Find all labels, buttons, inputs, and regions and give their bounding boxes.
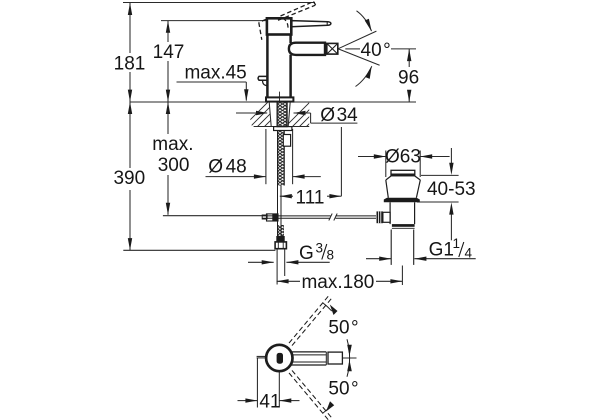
svg-text:Ø48: Ø48 <box>208 156 246 177</box>
svg-text:4: 4 <box>465 246 473 261</box>
svg-text:96: 96 <box>398 67 419 88</box>
svg-text:41: 41 <box>259 391 280 412</box>
svg-text:max.: max. <box>152 134 193 155</box>
svg-text:40°: 40° <box>361 40 391 61</box>
svg-text:50°: 50° <box>328 318 358 339</box>
svg-text:40-53: 40-53 <box>427 179 476 200</box>
svg-text:G1: G1 <box>429 239 454 260</box>
svg-text:111: 111 <box>296 187 325 208</box>
svg-text:1: 1 <box>453 236 461 251</box>
svg-text:max.180: max.180 <box>301 272 374 293</box>
svg-text:390: 390 <box>113 168 145 189</box>
svg-text:181: 181 <box>114 54 146 75</box>
svg-text:3: 3 <box>316 241 324 256</box>
svg-text:8: 8 <box>327 248 335 263</box>
svg-text:50°: 50° <box>328 378 358 399</box>
svg-text:300: 300 <box>158 155 190 176</box>
svg-text:Ø34: Ø34 <box>320 105 358 126</box>
svg-text:max.45: max.45 <box>184 63 246 84</box>
svg-text:Ø63: Ø63 <box>385 146 421 167</box>
svg-text:147: 147 <box>153 42 185 63</box>
svg-text:G: G <box>299 243 314 264</box>
